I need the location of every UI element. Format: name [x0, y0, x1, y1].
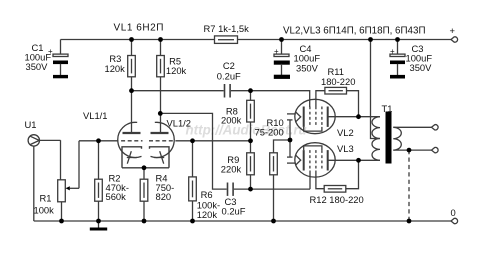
junction feedback to 0V rail [407, 219, 412, 224]
junction VL1/2 anode tap [158, 111, 163, 116]
wire VL1/1 anode to C2 [132, 90, 224, 92]
pentode VL2 grids (dashed) [310, 107, 322, 127]
svg-text:120k: 120k [197, 209, 218, 220]
connector U1 input [25, 119, 61, 221]
svg-text:R1: R1 [40, 192, 52, 203]
svg-text:0: 0 [451, 207, 456, 218]
junction R10 bottom rail [271, 219, 276, 224]
pentode VL2 anode [328, 107, 380, 127]
triode VL1/1 heater mark [127, 151, 137, 164]
transformer T1 secondary [393, 127, 401, 150]
capacitor C4 [274, 40, 321, 76]
resistor R11 180-220 [321, 66, 359, 117]
wire bottom 0V rail [34, 220, 452, 222]
junction C3/R9 node [248, 187, 253, 192]
pentode VL2 cathode [303, 107, 305, 127]
pentode VL3 grids (dashed) [310, 150, 322, 170]
wire +B to T1 primary tap [371, 40, 381, 139]
pentode VL2 screen lead to R11 [316, 91, 325, 107]
svg-text:200k: 200k [221, 115, 242, 126]
svg-text:VL2,VL3 6П14П, 6П18П, 6П43П: VL2,VL3 6П14П, 6П18П, 6П43П [283, 26, 425, 37]
output terminal top [432, 125, 439, 130]
svg-text:560k: 560k [106, 191, 127, 202]
junction R2/ground rail [96, 219, 101, 224]
svg-text:120k: 120k [166, 65, 187, 76]
wire secondary bottom to output terminal [393, 149, 431, 151]
pentode VL2 cathode fork [287, 112, 301, 123]
svg-text:U1: U1 [25, 119, 37, 130]
feedback dashed wire [408, 150, 410, 221]
resistor R10 75-200 [255, 117, 291, 221]
junction secondary to feedback [407, 148, 412, 153]
potentiometer R1 100k [34, 141, 80, 221]
triode VL1/1 grid (dashed) [115, 140, 143, 142]
svg-text:VL1/2: VL1/2 [167, 118, 192, 129]
wire VL1/2 grid to R6/R8 node [177, 140, 251, 142]
svg-text:VL1 6Н2П: VL1 6Н2П [114, 23, 165, 34]
tube VL1 dual triode envelope [83, 110, 191, 158]
resistor R8 200k [221, 91, 254, 141]
triode VL1/2 cathode [150, 147, 170, 168]
junction VL3 anode / R12 / T1 [356, 158, 361, 163]
pentode VL3 screen lead to R12 [316, 171, 324, 189]
svg-text:120k: 120k [105, 63, 126, 74]
resistor R7 1k-1,5k [204, 23, 250, 43]
resistor R3 120k [105, 40, 136, 134]
svg-text:VL3: VL3 [337, 143, 354, 154]
svg-text:0.2uF: 0.2uF [222, 206, 246, 217]
tube VL2 envelope [295, 99, 335, 133]
junction R5 top rail [158, 37, 163, 42]
wire common cathode bus VL1 [122, 167, 169, 169]
ground under C1 [53, 75, 68, 78]
svg-text:+: + [274, 47, 279, 56]
junction VL2 anode / R11 / T1 [356, 114, 361, 119]
pentode VL3 cathode fork [287, 155, 301, 166]
junction R1 bottom rail [59, 219, 64, 224]
capacitor C3 0.2uF bottom [222, 183, 246, 217]
resistor R6 100k-120k [189, 141, 220, 221]
junction R3 top rail [129, 37, 134, 42]
tube VL3 envelope [295, 143, 335, 177]
junction C4 top rail [279, 37, 284, 42]
svg-text:220k: 220k [221, 164, 242, 175]
junction R4 bottom rail [142, 219, 147, 224]
junction C3 top rail [395, 37, 400, 42]
wire VL1/2 anode to C3 [160, 113, 226, 189]
wire C3 to R9 node and VL3 grid [234, 171, 310, 190]
junction R6 grid node [190, 138, 195, 143]
pentode VL3 anode [328, 150, 380, 170]
ground under C4 [274, 75, 290, 79]
junction R8/R9 node [248, 138, 253, 143]
svg-text:C2: C2 [223, 60, 235, 71]
capacitor C1 [25, 40, 69, 76]
svg-text:820: 820 [156, 191, 172, 202]
svg-text:350V: 350V [26, 61, 49, 72]
svg-text:350V: 350V [296, 63, 319, 74]
svg-text:R12 180-220: R12 180-220 [310, 194, 364, 205]
svg-text:180-220: 180-220 [321, 76, 355, 87]
svg-text:350V: 350V [410, 62, 433, 73]
wire secondary top to output terminal [393, 126, 431, 128]
svg-text:75-200: 75-200 [255, 126, 284, 137]
resistor R2 470k-560k [95, 141, 129, 221]
ground under C3 [390, 75, 405, 79]
svg-text:+: + [48, 47, 53, 56]
junction VL2/VL3 cathodes to R10 [288, 138, 293, 143]
resistor R9 220k [221, 141, 255, 189]
wire C2 to VL2 grid [231, 91, 310, 107]
triode VL1/1 cathode [122, 147, 142, 168]
svg-text:+: + [390, 47, 395, 56]
svg-text:100k: 100k [34, 204, 55, 215]
triode VL1/2 grid (dashed) [149, 140, 177, 142]
junction T1 feed top rail [368, 37, 373, 42]
terminal 0 bottom right [451, 207, 458, 224]
svg-text:http://AudioBest.ru: http://AudioBest.ru [186, 123, 307, 138]
wire top +B rail [61, 39, 452, 41]
triode VL1/1 anode [123, 132, 141, 134]
junction VL1/1 anode to C2 [129, 88, 134, 93]
resistor R5 120k [157, 40, 187, 134]
svg-text:T1: T1 [382, 103, 393, 114]
svg-text:VL1/1: VL1/1 [83, 110, 108, 121]
wire VL1/1 grid from pot [79, 140, 115, 142]
triode VL1/2 anode [151, 132, 169, 134]
triode VL1/2 heater mark [154, 151, 164, 164]
transformer T1 core [386, 112, 392, 164]
junction R6 bottom rail [190, 219, 195, 224]
pentode VL3 suppressor-cathode link [304, 146, 322, 150]
junction VL1 cathodes to R4 [142, 165, 147, 170]
svg-text:VL2: VL2 [337, 127, 354, 138]
pentode VL3 cathode [303, 150, 305, 170]
svg-text:0.2uF: 0.2uF [217, 70, 241, 81]
transformer T1 primary [372, 117, 380, 161]
ground at bottom rail [90, 221, 107, 231]
svg-text:R7 1k-1,5k: R7 1k-1,5k [204, 23, 250, 34]
capacitor C2 0.2uF [217, 60, 241, 98]
junction R2 grid node [96, 138, 101, 143]
resistor R12 180-220 [310, 160, 364, 205]
resistor R4 750-820 [140, 168, 174, 221]
pentode VL2 suppressor-cathode link [304, 127, 322, 131]
svg-text:+: + [450, 25, 456, 36]
output terminal bottom [432, 147, 439, 152]
capacitor C3 100uF top right [390, 40, 432, 76]
wire cathode bus VL2/VL3 [289, 120, 291, 157]
terminal + top right [450, 25, 458, 42]
junction C2/R8 node [248, 88, 253, 93]
